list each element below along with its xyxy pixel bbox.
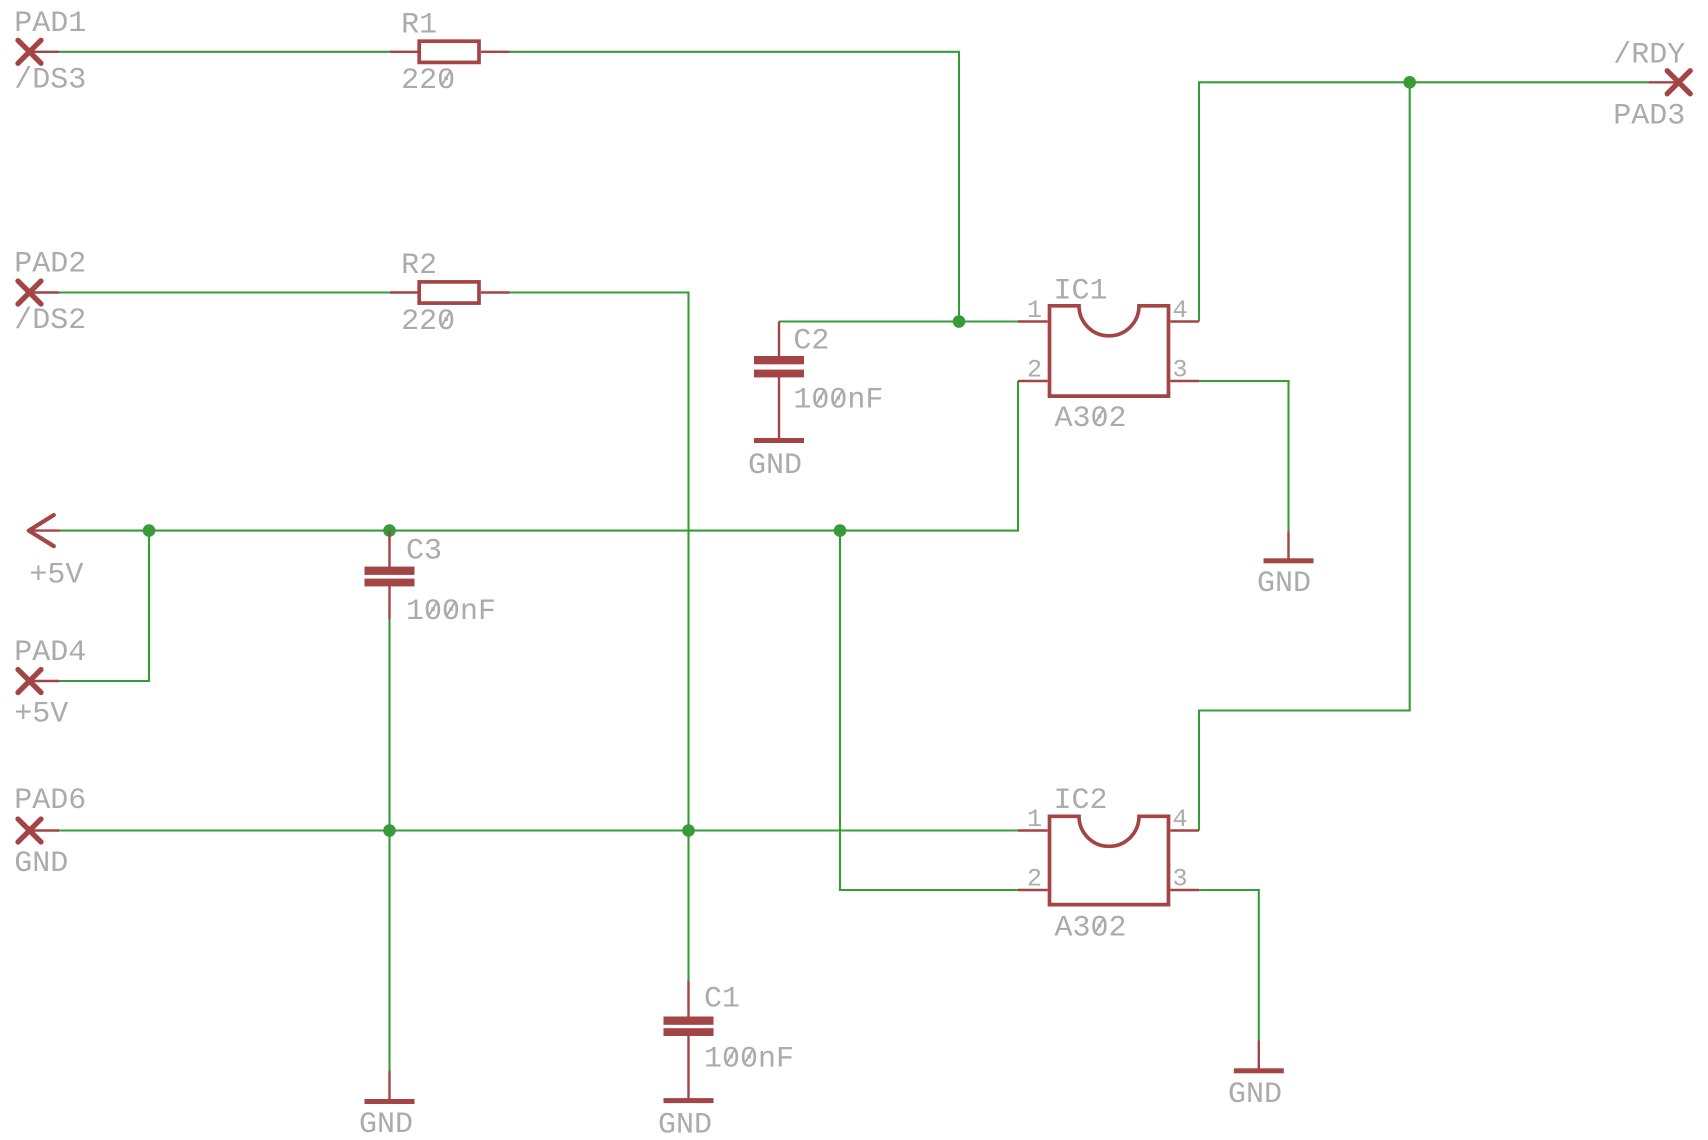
wire net GND C3 down	[388, 619, 390, 1070]
wire net /DS3 PAD1 to R1	[59, 51, 390, 53]
svg-text:1: 1	[1027, 805, 1042, 834]
resistor R2	[390, 282, 510, 303]
svg-text:IC1: IC1	[1054, 275, 1108, 309]
svg-text:IC2: IC2	[1054, 784, 1108, 818]
svg-text:+5V: +5V	[14, 698, 68, 732]
wire net N$1 C2 to IC1 pin1	[779, 320, 1018, 322]
wire net +5V branch to IC2 pin2	[840, 531, 1018, 890]
junction /RDY net	[1403, 76, 1416, 89]
svg-text:GND: GND	[14, 847, 68, 881]
svg-text:PAD4: PAD4	[14, 636, 86, 670]
IC U1 outline IC1	[1018, 306, 1199, 396]
svg-text:PAD2: PAD2	[14, 248, 86, 282]
wire net +5V PAD4 branch	[59, 531, 149, 681]
pad PAD2	[18, 281, 59, 304]
junction +5V at C3	[383, 524, 396, 537]
ground symbol GND at C2	[754, 438, 804, 443]
svg-text:/RDY: /RDY	[1613, 38, 1685, 72]
svg-text:A302: A302	[1055, 912, 1127, 946]
zero slashes (vector-font style)	[429, 71, 1105, 1064]
wire net /RDY branch to IC2 pin4	[1199, 82, 1410, 830]
svg-text:3: 3	[1173, 356, 1188, 385]
svg-text:/DS3: /DS3	[14, 63, 86, 97]
wire net N$1 R1 to junction column	[510, 52, 960, 322]
wire net /DS2 PAD2 to R2	[59, 291, 390, 293]
svg-text:+5V: +5V	[29, 559, 83, 593]
svg-text:PAD3: PAD3	[1613, 100, 1685, 134]
ground symbol GND at IC2 pin3	[1258, 1041, 1260, 1069]
ground symbol GND at C1	[664, 1098, 714, 1103]
pad PAD1	[18, 40, 59, 63]
junction GND row at C3 column	[383, 824, 396, 837]
svg-text:4: 4	[1173, 296, 1188, 325]
pad PAD6	[18, 819, 59, 842]
IC U2 outline IC2	[1018, 816, 1199, 904]
svg-text:GND: GND	[658, 1108, 712, 1140]
junction +5V at PAD4 column	[143, 524, 156, 537]
svg-text:C3: C3	[406, 535, 442, 569]
junction R1 net at C2 row	[953, 315, 966, 328]
capacitor C3	[365, 567, 415, 587]
svg-text:GND: GND	[1257, 567, 1311, 601]
junction GND row at C1 column	[682, 824, 695, 837]
ground symbol GND at IC1 pin3	[1287, 531, 1289, 558]
pad PAD3	[1649, 71, 1690, 94]
svg-text:A302: A302	[1055, 402, 1127, 436]
svg-text:3: 3	[1173, 865, 1188, 894]
capacitor C2	[754, 356, 804, 377]
supply symbol +5V arrow	[29, 515, 60, 546]
svg-text:GND: GND	[1228, 1078, 1282, 1112]
pad PAD4	[18, 670, 59, 693]
svg-text:4: 4	[1173, 805, 1188, 834]
svg-text:220: 220	[401, 305, 455, 339]
wire net N$2 R2 down to C1	[510, 293, 689, 981]
wire net +5V rail to IC1 pin2	[60, 381, 1018, 531]
svg-text:220: 220	[401, 64, 455, 98]
svg-text:1: 1	[1027, 296, 1042, 325]
svg-text:100nF: 100nF	[793, 383, 883, 417]
svg-text:2: 2	[1027, 356, 1042, 385]
svg-text:R1: R1	[401, 9, 437, 43]
ground symbol GND at C3	[388, 1070, 390, 1099]
resistor R1	[390, 41, 510, 62]
svg-text:PAD1: PAD1	[14, 7, 86, 41]
svg-text:/DS2: /DS2	[14, 304, 86, 338]
svg-text:100nF: 100nF	[704, 1042, 794, 1076]
svg-text:R2: R2	[401, 249, 437, 283]
svg-text:GND: GND	[748, 449, 802, 483]
svg-text:2: 2	[1027, 865, 1042, 894]
wire net /RDY IC1 pin4 to PAD3	[1199, 82, 1649, 321]
svg-text:PAD6: PAD6	[14, 784, 86, 818]
junction +5V at IC2 branch	[834, 524, 847, 537]
svg-text:GND: GND	[359, 1108, 413, 1140]
capacitor C1	[664, 1017, 714, 1037]
svg-text:C1: C1	[704, 982, 740, 1016]
wire net GND row PAD6 to IC2 pin1	[59, 829, 1018, 831]
wire net IC1 pin3 to GND	[1199, 381, 1289, 531]
svg-text:100nF: 100nF	[406, 595, 496, 629]
svg-text:C2: C2	[793, 324, 829, 358]
wire net IC2 pin3 to GND	[1199, 890, 1259, 1041]
